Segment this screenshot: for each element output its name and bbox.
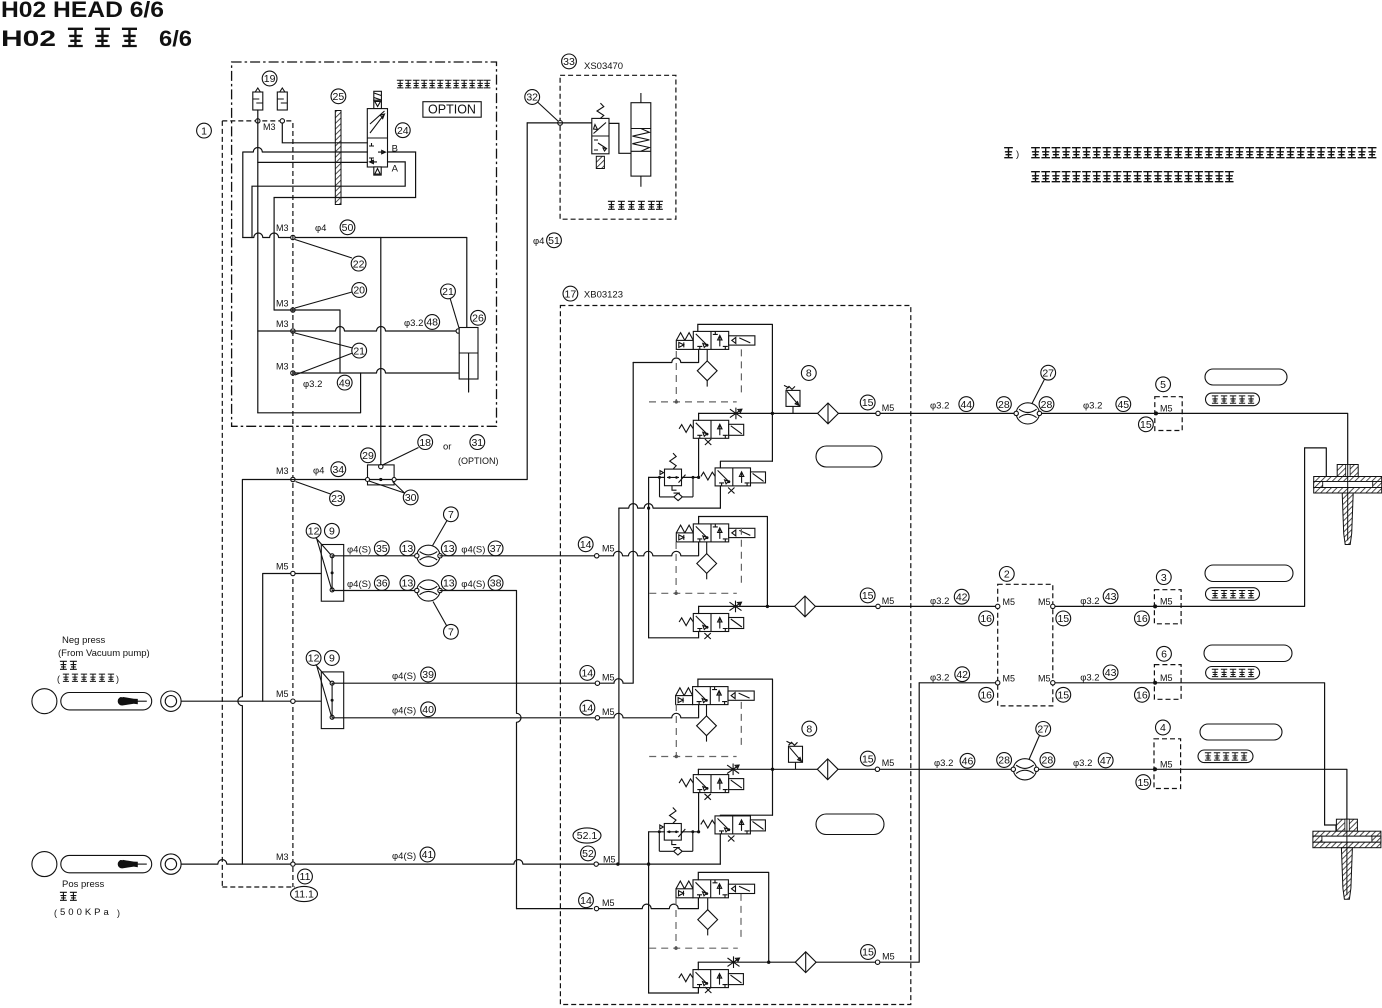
- wire line 36: [332, 590, 417, 592]
- svg-text:φ3.2: φ3.2: [930, 672, 949, 683]
- blank oval badge upper: [816, 446, 882, 467]
- svg-text:35: 35: [376, 543, 388, 555]
- svg-text:46: 46: [962, 756, 974, 768]
- OPTION label box: [423, 102, 481, 118]
- svg-text:25: 25: [333, 91, 345, 103]
- relief valve 8 upper: [784, 385, 800, 413]
- ball union 7 on line 36/38: [415, 580, 443, 601]
- pilot valve A3: [676, 687, 755, 705]
- svg-text:or: or: [443, 442, 451, 453]
- svg-text:15: 15: [1140, 419, 1152, 431]
- svg-text:): ): [117, 908, 120, 918]
- svg-text:49: 49: [339, 377, 351, 389]
- svg-text:29: 29: [362, 450, 374, 462]
- svg-text:44: 44: [960, 399, 972, 411]
- svg-text:34: 34: [332, 464, 344, 476]
- svg-text:M5: M5: [602, 673, 615, 683]
- svg-text:Pos press: Pos press: [62, 879, 104, 890]
- valve B4: [679, 970, 744, 988]
- svg-text:M5: M5: [603, 855, 616, 865]
- pos press connector: [161, 854, 181, 874]
- svg-text:15: 15: [862, 397, 874, 409]
- node pins: [256, 119, 260, 123]
- svg-text:41: 41: [422, 849, 434, 861]
- cylinder 26: [471, 310, 486, 325]
- svg-text:28: 28: [1042, 755, 1054, 767]
- svg-text:M5: M5: [1003, 597, 1016, 607]
- svg-text:14: 14: [582, 702, 594, 714]
- svg-text:Neg press: Neg press: [62, 635, 106, 646]
- svg-text:14: 14: [581, 668, 593, 680]
- filter F3: [697, 704, 717, 741]
- svg-text:M3: M3: [276, 362, 289, 372]
- pin cylinders 19: [253, 88, 263, 110]
- svg-text:M5: M5: [1160, 759, 1173, 769]
- svg-text:φ3.2: φ3.2: [1083, 401, 1102, 412]
- neg press hand badge: [61, 693, 152, 710]
- svg-text:(From Vacuum pump): (From Vacuum pump): [58, 648, 150, 659]
- wire vertical x=619: [618, 508, 620, 864]
- svg-text:φ4(S): φ4(S): [347, 545, 371, 556]
- pilot valve A2: [676, 524, 755, 542]
- svg-text:9: 9: [329, 653, 335, 665]
- leader 22: [295, 240, 352, 259]
- svg-text:31: 31: [471, 437, 483, 449]
- svg-text:H02: H02: [1, 26, 56, 51]
- svg-text:M5: M5: [1038, 673, 1051, 683]
- svg-text:52: 52: [582, 848, 594, 860]
- inline filter line 3: [817, 759, 838, 780]
- svg-text:XB03123: XB03123: [584, 290, 623, 301]
- svg-text:15: 15: [862, 947, 874, 959]
- nozzle suction badge 1: [1206, 588, 1260, 601]
- svg-text:7: 7: [448, 509, 454, 521]
- pos press hand badge: [61, 855, 152, 872]
- svg-text:M5: M5: [276, 562, 289, 572]
- svg-text:7: 7: [448, 627, 454, 639]
- wires M3 section: [274, 310, 458, 373]
- svg-text:): ): [116, 674, 119, 684]
- relief valve 8 lower: [787, 741, 803, 769]
- M5 port box 2: [998, 584, 1053, 706]
- parts suction badge 2: [1198, 750, 1253, 763]
- svg-text:M3: M3: [276, 319, 289, 329]
- svg-text:19: 19: [264, 73, 276, 85]
- leader 20: [295, 292, 352, 308]
- svg-text:12: 12: [308, 653, 320, 665]
- box 17: [563, 286, 578, 301]
- svg-text:OPTION: OPTION: [428, 103, 476, 117]
- wire A loop: [252, 162, 405, 238]
- pressure regulator upper: [658, 453, 695, 501]
- wire vertical x=649 upper: [648, 477, 650, 637]
- svg-text:16: 16: [1136, 613, 1148, 625]
- svg-text:φ4(S): φ4(S): [461, 579, 485, 590]
- svg-text:15: 15: [862, 590, 874, 602]
- svg-text:φ4(S): φ4(S): [392, 671, 416, 682]
- svg-text:M5: M5: [882, 952, 895, 962]
- svg-text:17: 17: [565, 288, 577, 300]
- pos press source circle: [32, 852, 57, 877]
- svg-text:14: 14: [580, 895, 592, 907]
- valve B2: [679, 614, 744, 632]
- valve C1: [701, 468, 766, 486]
- inline filter line 1: [818, 403, 839, 424]
- wire B loop: [243, 148, 416, 310]
- check valve group 12/9 upper: [321, 545, 343, 602]
- svg-text:14: 14: [580, 539, 592, 551]
- svg-text:9: 9: [329, 526, 335, 538]
- svg-text:50: 50: [342, 222, 354, 234]
- wire line 38 drop: [440, 591, 521, 909]
- svg-text:16: 16: [980, 690, 992, 702]
- wire neg branch to upper M5: [263, 574, 332, 702]
- blank badge line 1: [1205, 369, 1287, 385]
- svg-text:36: 36: [376, 578, 388, 590]
- svg-text:11.1: 11.1: [294, 889, 314, 901]
- svg-text:45: 45: [1117, 399, 1129, 411]
- svg-text:M3: M3: [276, 223, 289, 233]
- blank oval badge lower: [816, 814, 884, 835]
- svg-text:(: (: [54, 908, 57, 918]
- svg-text:28: 28: [998, 755, 1010, 767]
- svg-text:2: 2: [1004, 569, 1010, 581]
- svg-text:φ4(S): φ4(S): [392, 706, 416, 717]
- svg-text:5: 5: [1160, 379, 1166, 391]
- svg-text:M5: M5: [1038, 597, 1051, 607]
- svg-text:(: (: [57, 674, 60, 684]
- svg-text:42: 42: [956, 669, 968, 681]
- wire A1 top loop: [698, 324, 773, 461]
- 14 / M5 port labels inside box17: [578, 537, 593, 552]
- OPTION dash-dot box: [232, 62, 497, 426]
- pressure regulator lower: [658, 808, 695, 856]
- ball union 27/28 line 1: [1014, 403, 1042, 424]
- svg-text:M5: M5: [1160, 596, 1173, 606]
- svg-text:22: 22: [353, 258, 365, 270]
- svg-text:38: 38: [490, 578, 502, 590]
- blank badge line 3: [1200, 724, 1282, 740]
- svg-text:51: 51: [548, 235, 560, 247]
- svg-text:40: 40: [422, 704, 434, 716]
- svg-text:A: A: [392, 164, 399, 175]
- wire line 38 to cluster 4: [517, 897, 699, 909]
- wire output line 2: [699, 448, 1327, 607]
- svg-text:13: 13: [443, 543, 455, 555]
- wire blow supply upper: [619, 504, 721, 509]
- label phi4(S) 41: [420, 847, 435, 862]
- note text top right: [1004, 148, 1019, 160]
- svg-text:27: 27: [1042, 367, 1054, 379]
- svg-text:6: 6: [1161, 649, 1167, 661]
- nozzle assembly 1: [1314, 465, 1382, 545]
- M5 port box 5: [1155, 397, 1182, 431]
- svg-text:18: 18: [419, 437, 431, 449]
- svg-text:8: 8: [806, 723, 812, 735]
- svg-text:φ4: φ4: [533, 236, 544, 247]
- svg-text:8: 8: [806, 368, 812, 380]
- svg-text:H02 HEAD 6/6: H02 HEAD 6/6: [1, 0, 164, 22]
- svg-text:M5: M5: [882, 758, 895, 768]
- pilot valve A4: [676, 880, 755, 898]
- svg-text:23: 23: [331, 493, 343, 505]
- M5 port box 6: [1154, 665, 1181, 700]
- valve 24: [395, 123, 410, 138]
- svg-text:42: 42: [956, 591, 968, 603]
- svg-text:13: 13: [402, 543, 414, 555]
- svg-text:48: 48: [426, 317, 438, 329]
- wire line 40: [332, 704, 698, 718]
- ball union 27/28 line 3: [1011, 759, 1039, 780]
- svg-text:M5: M5: [1160, 673, 1173, 683]
- svg-text:4: 4: [1160, 722, 1166, 734]
- wire output line 2b: [919, 683, 1336, 831]
- valve C2: [701, 816, 766, 834]
- wire line 35: [332, 555, 417, 557]
- M5 port box 3: [1154, 590, 1181, 624]
- blank badge line 2b: [1204, 645, 1292, 662]
- svg-text:): ): [1016, 149, 1019, 160]
- throttle on line 1: [730, 408, 742, 420]
- inline filter line 2: [795, 596, 816, 617]
- svg-text:32: 32: [526, 92, 538, 104]
- valve B3: [679, 775, 744, 793]
- svg-text:M5: M5: [602, 544, 615, 554]
- svg-text:φ3.2: φ3.2: [934, 758, 953, 769]
- filter F2: [697, 542, 717, 579]
- svg-text:φ3.2: φ3.2: [1080, 672, 1099, 683]
- svg-text:3: 3: [1161, 572, 1167, 584]
- neg press connector: [161, 691, 181, 711]
- svg-text:52.1: 52.1: [577, 830, 598, 842]
- svg-text:M3: M3: [276, 852, 289, 862]
- wire A4 top loop: [698, 872, 768, 962]
- blank badge line 2: [1205, 565, 1293, 582]
- svg-text:43: 43: [1105, 591, 1117, 603]
- svg-text:φ3.2: φ3.2: [1073, 758, 1092, 769]
- wire pos press y=864: [181, 860, 720, 865]
- circled 19: [262, 71, 277, 86]
- svg-text:M5: M5: [1160, 404, 1173, 414]
- inline filter line 4: [795, 952, 816, 973]
- pilot valve A1: [676, 331, 755, 349]
- svg-text:500KPa: 500KPa: [60, 907, 112, 918]
- svg-text:15: 15: [1137, 777, 1149, 789]
- Z brake block 33: [562, 54, 577, 69]
- M5 port box 4: [1154, 739, 1181, 789]
- svg-text:27: 27: [1037, 724, 1049, 736]
- nozzle assembly 2: [1313, 819, 1381, 899]
- neg press source circle: [32, 689, 57, 714]
- box 1 dashed: [222, 121, 295, 887]
- svg-text:37: 37: [490, 543, 502, 555]
- svg-text:12: 12: [308, 526, 320, 538]
- wire vertical x=649 lower: [648, 832, 650, 993]
- wire line 37: [440, 542, 699, 556]
- valve B1: [679, 420, 744, 438]
- dashed manifold line top: [222, 120, 293, 122]
- wire A3 top loop: [698, 679, 773, 815]
- wire pin1 vertical: [257, 110, 259, 413]
- M3 nodes column: [291, 308, 295, 312]
- node junction on line 1: [771, 412, 774, 415]
- wire neg press y=701: [181, 700, 321, 702]
- svg-text:XS03470: XS03470: [584, 61, 623, 72]
- wire A2 top loop: [699, 517, 768, 607]
- leaders 21: [295, 333, 353, 348]
- wire output line 4: [698, 683, 919, 962]
- svg-text:M5: M5: [276, 689, 289, 699]
- svg-text:26: 26: [472, 313, 484, 325]
- wire line 39: [332, 363, 633, 684]
- svg-text:M5: M5: [882, 403, 895, 413]
- wire A1 input: [633, 349, 698, 362]
- svg-text:16: 16: [1136, 690, 1148, 702]
- oval 52.1: [573, 828, 601, 843]
- svg-text:φ4(S): φ4(S): [392, 851, 416, 862]
- svg-text:6/6: 6/6: [159, 26, 192, 51]
- nozzle suction badge 2: [1206, 667, 1260, 680]
- oval 11.1: [291, 886, 318, 901]
- svg-text:47: 47: [1100, 755, 1112, 767]
- leader 23: [296, 482, 331, 495]
- svg-text:M5: M5: [882, 596, 895, 606]
- svg-text:φ3.2: φ3.2: [930, 401, 949, 412]
- svg-text:28: 28: [1041, 399, 1053, 411]
- box 18/29: [368, 465, 395, 485]
- svg-text:M5: M5: [602, 898, 615, 908]
- svg-text:1: 1: [201, 125, 207, 137]
- circled 52 + M5 node: [581, 846, 596, 861]
- svg-text:φ4(S): φ4(S): [461, 545, 485, 556]
- circled 11: [298, 869, 313, 884]
- svg-text:(OPTION): (OPTION): [458, 456, 499, 466]
- svg-text:20: 20: [353, 285, 365, 297]
- filter F1: [697, 349, 717, 386]
- svg-text:φ4: φ4: [313, 466, 324, 477]
- svg-text:B: B: [392, 144, 398, 155]
- svg-text:13: 13: [443, 578, 455, 590]
- throttle on line 3: [727, 764, 739, 776]
- svg-text:11: 11: [300, 871, 311, 883]
- wire output line 3: [698, 769, 1347, 820]
- parts suction badge 1: [1206, 393, 1260, 406]
- svg-text:43: 43: [1105, 667, 1117, 679]
- svg-text:M3: M3: [276, 299, 289, 309]
- throttle on line 2: [730, 601, 742, 613]
- svg-text:21: 21: [353, 345, 365, 357]
- svg-text:15: 15: [1057, 613, 1069, 625]
- svg-text:15: 15: [862, 753, 874, 765]
- svg-text:30: 30: [405, 492, 417, 504]
- svg-text:21: 21: [442, 286, 454, 298]
- jidou backup pin kinou label: [397, 80, 491, 88]
- svg-text:33: 33: [563, 56, 575, 68]
- svg-text:φ3.2: φ3.2: [930, 596, 949, 607]
- svg-text:39: 39: [422, 669, 434, 681]
- filter F4: [698, 898, 718, 935]
- wire y=237.5 phi4(50): [243, 233, 467, 328]
- wire output line 1: [699, 413, 1348, 464]
- svg-text:φ3.2: φ3.2: [404, 318, 423, 329]
- svg-text:24: 24: [397, 125, 409, 137]
- svg-text:13: 13: [402, 578, 414, 590]
- check valve group 12/9 lower: [321, 672, 343, 729]
- svg-text:φ3.2: φ3.2: [303, 379, 322, 390]
- throttle on line 4: [728, 956, 740, 968]
- svg-text:φ4(S): φ4(S): [347, 579, 371, 590]
- svg-text:φ4: φ4: [315, 223, 326, 234]
- svg-text:M3: M3: [276, 466, 289, 476]
- svg-text:M5: M5: [602, 707, 615, 717]
- ball union 7 on line 35/37: [415, 545, 443, 566]
- svg-text:M3: M3: [263, 122, 276, 132]
- svg-text:28: 28: [998, 399, 1010, 411]
- svg-text:15: 15: [1057, 690, 1069, 702]
- wire pin2 down to valve: [282, 123, 367, 143]
- svg-text:φ3.2: φ3.2: [1080, 596, 1099, 607]
- svg-text:M5: M5: [1003, 673, 1016, 683]
- svg-text:16: 16: [980, 613, 992, 625]
- circled 25 + hatched bar: [331, 89, 346, 104]
